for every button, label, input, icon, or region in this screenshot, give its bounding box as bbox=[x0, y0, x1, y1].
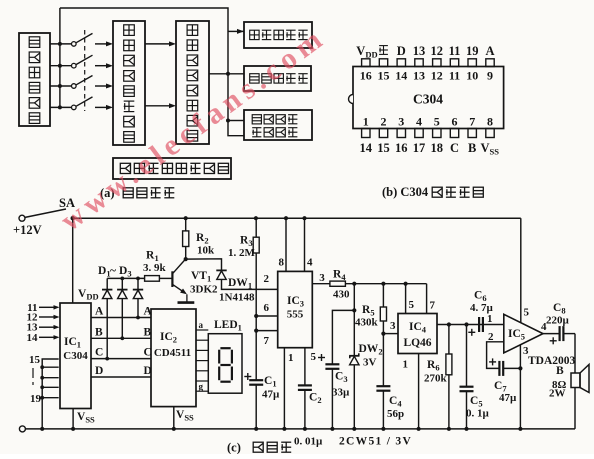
svg-text:LQ46: LQ46 bbox=[403, 337, 431, 349]
pin 11 (top) bbox=[449, 59, 460, 83]
svg-text:2CW51 / 3V: 2CW51 / 3V bbox=[339, 436, 412, 448]
svg-text:430: 430 bbox=[333, 289, 350, 301]
pin label 14 (bottom) bbox=[360, 141, 373, 155]
svg-text:47µ: 47µ bbox=[499, 392, 517, 404]
wire: bus to alarm block bbox=[226, 119, 244, 136]
svg-text:1: 1 bbox=[363, 114, 369, 128]
pin 10 (top) bbox=[466, 59, 478, 83]
svg-text:16: 16 bbox=[395, 141, 408, 155]
pin 6 (bottom) bbox=[450, 114, 458, 137]
svg-text:3V: 3V bbox=[363, 357, 377, 369]
label pin 1 of IC5 bbox=[487, 313, 493, 325]
svg-text:270k: 270k bbox=[424, 373, 448, 385]
svg-text:14: 14 bbox=[360, 141, 373, 155]
label pin 2 of IC5 bbox=[488, 331, 494, 343]
label VDD of IC1 bbox=[78, 288, 99, 302]
pin label 18 (bottom) bbox=[431, 141, 444, 155]
svg-text:3. 9k: 3. 9k bbox=[143, 262, 167, 274]
label VSS of IC2 bbox=[176, 409, 194, 423]
capacitor C5 0.1u bbox=[460, 325, 490, 431]
svg-text:C: C bbox=[450, 141, 459, 155]
svg-text:B: B bbox=[468, 141, 476, 155]
svg-text:5: 5 bbox=[409, 299, 415, 311]
pin label 15 (bottom) bbox=[377, 141, 390, 155]
pin label D (top) bbox=[397, 44, 406, 58]
wire: IC5 pin 2 to C7 bbox=[487, 342, 504, 369]
block: room number display bbox=[244, 66, 311, 91]
pin label C (bottom) bbox=[450, 141, 459, 155]
svg-text:19: 19 bbox=[30, 393, 42, 405]
label C304 bbox=[413, 92, 443, 107]
wire: IC5 pin 3 to ground bbox=[518, 345, 529, 431]
svg-text:1. 2M: 1. 2M bbox=[228, 247, 256, 259]
svg-text:~: ~ bbox=[110, 265, 116, 277]
svg-text:1: 1 bbox=[288, 352, 294, 364]
svg-text:C: C bbox=[95, 347, 103, 359]
svg-text:D: D bbox=[95, 365, 103, 377]
svg-text:220µ: 220µ bbox=[546, 315, 570, 327]
IC U1 C304 bbox=[60, 303, 91, 409]
svg-text:15: 15 bbox=[378, 69, 390, 83]
pin label 空 (top) bbox=[379, 46, 388, 55]
wire: pin 1 of 555 to ground bbox=[282, 348, 293, 431]
resistor R2 10k bbox=[183, 216, 215, 259]
svg-text:555: 555 bbox=[287, 309, 304, 321]
node: SA junction bbox=[71, 216, 75, 220]
capacitor C4 56p bbox=[376, 334, 404, 431]
input pin 12 of IC1 bbox=[27, 312, 60, 324]
IC C304 package body bbox=[349, 67, 504, 129]
svg-text:56p: 56p bbox=[387, 408, 404, 420]
wire: R4 output node wire bbox=[345, 282, 426, 286]
wire: rail to IC1 VDD bbox=[72, 218, 74, 303]
svg-text:15: 15 bbox=[29, 354, 41, 366]
zener DW2 2CW51 3V bbox=[349, 284, 382, 431]
wire: matrix to decoder (lower) bbox=[145, 103, 176, 108]
svg-text:13: 13 bbox=[413, 69, 425, 83]
diode D2 bbox=[117, 278, 127, 340]
capacitor C6 4.7u bbox=[468, 290, 493, 336]
wire: line C IC1 to IC2 bbox=[91, 358, 151, 360]
svg-text:0. 01µ: 0. 01µ bbox=[294, 436, 323, 448]
pin 12 (top) bbox=[431, 59, 443, 83]
pin 16 (top) bbox=[360, 59, 372, 83]
svg-text:A: A bbox=[485, 44, 494, 58]
svg-text:430k: 430k bbox=[355, 317, 379, 329]
IC U4 LQ46 bbox=[398, 314, 437, 354]
svg-text:D: D bbox=[397, 44, 406, 58]
label A at IC1 bbox=[95, 306, 104, 318]
svg-text:B: B bbox=[556, 365, 564, 377]
node: VT1 collector bbox=[184, 257, 188, 261]
speaker B 8ohm 2W bbox=[549, 334, 589, 429]
label C at IC2 bbox=[144, 347, 152, 359]
svg-text:11: 11 bbox=[449, 69, 460, 83]
pin label 12 (top) bbox=[431, 44, 444, 58]
svg-text:12: 12 bbox=[431, 69, 443, 83]
dashed gang line of switches bbox=[84, 30, 86, 111]
svg-text:13: 13 bbox=[413, 44, 426, 58]
ellipsis pins 15..19 bbox=[32, 368, 34, 385]
svg-text:8: 8 bbox=[279, 257, 285, 269]
svg-text:1: 1 bbox=[487, 313, 493, 325]
svg-text:10: 10 bbox=[466, 69, 478, 83]
svg-text:4: 4 bbox=[307, 257, 313, 269]
switch K1 bbox=[50, 33, 113, 46]
svg-text:1: 1 bbox=[403, 359, 409, 371]
pin 13 (top) bbox=[413, 59, 425, 83]
switch K3 bbox=[50, 76, 113, 89]
wire: pin 7 of 555 bbox=[254, 329, 278, 348]
svg-text:19: 19 bbox=[466, 44, 479, 58]
svg-text:A: A bbox=[95, 306, 104, 318]
pin label VDD (top) bbox=[356, 44, 377, 60]
pin 15 (top) bbox=[378, 59, 390, 83]
watermark www.elecfans.com bbox=[55, 20, 333, 238]
capacitor C2 0.01u on pin 5 bbox=[298, 348, 322, 431]
diode DW1 1N4148 bbox=[186, 259, 278, 304]
pin 4 (bottom) bbox=[415, 114, 423, 137]
pin label A (top) bbox=[485, 44, 494, 58]
svg-text:33µ: 33µ bbox=[332, 387, 350, 399]
resistor R5 430k bbox=[355, 284, 387, 334]
svg-text:2W: 2W bbox=[549, 388, 566, 400]
pin label 17 (bottom) bbox=[413, 141, 426, 155]
svg-text:8: 8 bbox=[487, 114, 493, 128]
wire: IC2 VSS to ground rail bbox=[172, 407, 176, 431]
svg-text:C304: C304 bbox=[63, 350, 88, 362]
switch K4 bbox=[50, 97, 113, 110]
wire: IC4 output wire bbox=[437, 322, 504, 326]
switch K2 bbox=[50, 55, 113, 68]
bottom annotation 2CW51/3V bbox=[339, 436, 412, 448]
block: sound alarm / flash alarm bbox=[244, 110, 312, 140]
svg-text:3: 3 bbox=[523, 345, 529, 357]
svg-text:0. 1µ: 0. 1µ bbox=[466, 408, 490, 420]
svg-text:17: 17 bbox=[413, 141, 426, 155]
wire: line D IC1 to IC2 bbox=[91, 376, 151, 378]
wire: pin 1 of IC4 to ground bbox=[403, 354, 421, 431]
svg-text:14: 14 bbox=[395, 69, 407, 83]
svg-text:(c): (c) bbox=[227, 441, 241, 455]
wire: matrix to decoder (upper) bbox=[145, 41, 176, 46]
wire: pin 3 of IC4 bbox=[381, 320, 398, 336]
label D at IC1 bbox=[95, 365, 103, 377]
input pin 13 of IC1 bbox=[27, 322, 60, 334]
svg-text:g: g bbox=[199, 382, 204, 392]
resistor R1 3.9k bbox=[143, 250, 172, 282]
wire: pin 6 of 555 bbox=[254, 302, 278, 318]
pin 14 (top) bbox=[395, 59, 407, 83]
pin 9 (top) bbox=[486, 59, 494, 83]
pin 3 (bottom) bbox=[397, 114, 405, 137]
op-amp IC5 TDA2003 bbox=[504, 314, 576, 367]
svg-text:5: 5 bbox=[311, 351, 317, 363]
label pin 19 bbox=[30, 393, 42, 405]
svg-text:11: 11 bbox=[449, 44, 461, 58]
pin 7 (bottom) bbox=[468, 114, 476, 137]
block: automatic power switching circuit bbox=[113, 158, 231, 179]
svg-text:a: a bbox=[199, 320, 204, 330]
wire: decoder to room display bbox=[209, 72, 244, 76]
pin label 16 (bottom) bbox=[395, 141, 408, 155]
caption (c) bbox=[227, 441, 291, 455]
svg-text:C304: C304 bbox=[413, 92, 443, 107]
svg-text:CD4511: CD4511 bbox=[154, 347, 191, 359]
capacitor C1 47u bbox=[244, 316, 280, 431]
wire: rail to IC5 pin 5 bbox=[521, 218, 530, 323]
terminal +12V bbox=[13, 215, 42, 237]
svg-text:47µ: 47µ bbox=[262, 389, 280, 401]
caption (b) bbox=[382, 185, 483, 199]
wire: line B IC1 to IC2 bbox=[91, 337, 151, 339]
ground bar of VT1 emitter bbox=[178, 301, 195, 304]
svg-text:5: 5 bbox=[434, 114, 440, 128]
pin 1 (bottom) bbox=[362, 114, 370, 137]
label VSS of IC1 bbox=[77, 411, 95, 425]
svg-text:TDA2003: TDA2003 bbox=[528, 355, 576, 367]
block: theft detection circuit bbox=[19, 33, 50, 126]
block: address matrix control circuit bbox=[113, 21, 145, 145]
svg-text:2: 2 bbox=[264, 273, 270, 285]
bottom annotation 0.01u bbox=[294, 436, 323, 448]
svg-text:6: 6 bbox=[452, 114, 458, 128]
capacitor C3 33u bbox=[318, 310, 354, 431]
wire: detection block output column bbox=[59, 8, 61, 107]
pin label 19 (top) bbox=[466, 44, 479, 58]
capacitor C8 220u bbox=[543, 302, 575, 344]
diodes D1-D3 label bbox=[98, 265, 132, 279]
LED display LED1 bbox=[196, 319, 242, 393]
label pin 15 bbox=[29, 354, 41, 366]
svg-text:3: 3 bbox=[398, 114, 404, 128]
pin 2 (bottom) bbox=[379, 114, 387, 137]
svg-text:10k: 10k bbox=[197, 245, 215, 257]
resistor R6 270k bbox=[424, 325, 452, 431]
capacitor C7 47u bbox=[489, 358, 522, 404]
svg-text:5: 5 bbox=[524, 307, 530, 319]
caption (a) bbox=[100, 186, 174, 200]
IC U2 CD4511 bbox=[151, 309, 196, 407]
pin label B (bottom) bbox=[468, 141, 476, 155]
block: address decode drive circuit bbox=[176, 21, 209, 144]
wire: ground rail bbox=[19, 426, 575, 432]
svg-text:B: B bbox=[95, 326, 103, 338]
switch SA bbox=[25, 196, 75, 217]
svg-text:3: 3 bbox=[390, 320, 396, 332]
svg-text:7: 7 bbox=[264, 335, 270, 347]
svg-text:7: 7 bbox=[469, 114, 475, 128]
svg-text:+12V: +12V bbox=[13, 223, 42, 237]
transistor VT1 3DK2 bbox=[172, 259, 218, 303]
pin 8 (bottom) bbox=[486, 114, 494, 137]
svg-text:7: 7 bbox=[430, 300, 436, 312]
wire: pin 8 of 555 to rail bbox=[279, 216, 289, 271]
pin label 11 (top) bbox=[449, 44, 461, 58]
resistor R4 430 bbox=[312, 269, 350, 301]
svg-text:(b) C304: (b) C304 bbox=[382, 185, 429, 199]
IC U3 555 bbox=[278, 271, 313, 347]
arrow into floor display bbox=[237, 29, 244, 34]
wire: IC1 VSS to ground rail bbox=[71, 409, 75, 431]
svg-text:6: 6 bbox=[264, 302, 270, 314]
svg-text:3: 3 bbox=[319, 272, 325, 284]
block: floor number display bbox=[244, 22, 312, 48]
label pin 4 of IC5 bbox=[541, 321, 547, 333]
input pin 11 of IC1 bbox=[27, 302, 59, 314]
svg-text:15: 15 bbox=[377, 141, 390, 155]
label A at IC2 bbox=[144, 306, 153, 318]
svg-text:1N4148: 1N4148 bbox=[219, 292, 255, 304]
label B at IC2 bbox=[144, 326, 152, 338]
pin label VSS (bottom) bbox=[481, 141, 500, 157]
svg-text:12: 12 bbox=[431, 44, 444, 58]
label C at IC1 bbox=[95, 347, 103, 359]
wire: top bus of block diagram bbox=[60, 8, 228, 121]
svg-text:4: 4 bbox=[416, 114, 422, 128]
diode D3 bbox=[133, 278, 143, 319]
wire: bus to floor display bbox=[228, 30, 244, 32]
svg-text:18: 18 bbox=[431, 141, 444, 155]
input pin 14 of IC1 bbox=[27, 332, 60, 344]
wire: pins 15-19 bus bbox=[40, 359, 59, 431]
svg-text:9: 9 bbox=[487, 69, 493, 83]
label B at IC1 bbox=[95, 326, 103, 338]
diode D1 bbox=[102, 278, 112, 360]
wire: top supply rail bbox=[73, 217, 521, 219]
pin 5 (bottom) bbox=[433, 114, 441, 137]
wire: line A IC1 to IC2 bbox=[91, 317, 151, 319]
svg-text:14: 14 bbox=[27, 332, 39, 344]
label pin 2 of 555 bbox=[264, 273, 270, 285]
wire: pins 5,7 of IC4 to node wire bbox=[406, 284, 436, 314]
svg-text:16: 16 bbox=[360, 69, 372, 83]
label D at IC2 bbox=[144, 365, 152, 377]
svg-text:2: 2 bbox=[381, 114, 387, 128]
svg-text:3DK2: 3DK2 bbox=[190, 284, 218, 296]
wire: diode anode bus bbox=[107, 277, 144, 281]
pin label 13 (top) bbox=[413, 44, 426, 58]
wire: pin 4 of 555 to rail bbox=[302, 216, 313, 271]
resistor R3 1.2M bbox=[228, 216, 259, 316]
